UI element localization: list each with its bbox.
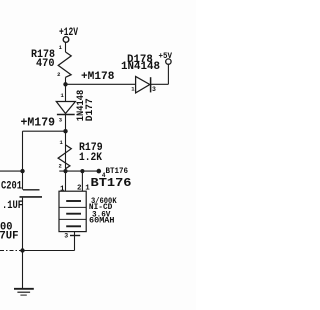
svg-text:BT176: BT176 xyxy=(91,176,132,190)
svg-text:C201: C201 xyxy=(1,180,22,192)
svg-text:D177: D177 xyxy=(84,98,96,121)
svg-text:+M179: +M179 xyxy=(21,115,56,129)
svg-text:1N4148: 1N4148 xyxy=(121,61,160,73)
svg-text:1: 1 xyxy=(85,185,90,193)
svg-text:+M178: +M178 xyxy=(81,71,114,83)
svg-text:470: 470 xyxy=(36,58,55,70)
svg-text:+5V: +5V xyxy=(159,52,173,61)
svg-text:3: 3 xyxy=(64,233,68,240)
svg-text:3: 3 xyxy=(152,86,156,93)
svg-text:.1UF: .1UF xyxy=(2,200,23,212)
svg-text:+12V: +12V xyxy=(59,27,78,39)
svg-text:2: 2 xyxy=(59,163,62,170)
svg-text:2: 2 xyxy=(77,185,82,193)
svg-text:BT176: BT176 xyxy=(106,167,129,176)
svg-text:47UF: 47UF xyxy=(0,230,19,242)
svg-text:2: 2 xyxy=(57,71,60,78)
svg-text:60MAH: 60MAH xyxy=(89,216,115,225)
svg-text:1: 1 xyxy=(60,186,65,194)
svg-text:4: 4 xyxy=(102,172,106,179)
svg-text:1.2K: 1.2K xyxy=(79,152,102,164)
